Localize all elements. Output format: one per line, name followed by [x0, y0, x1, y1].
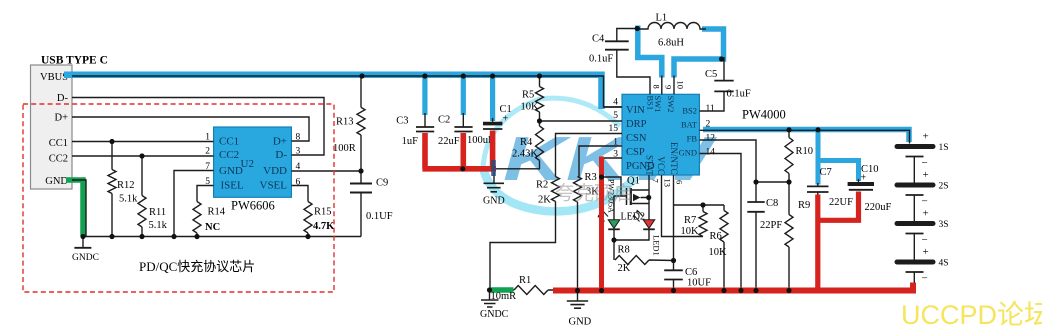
svg-text:R15: R15	[314, 207, 332, 218]
wire C3 stub blue	[422, 72, 427, 115]
wire FB divider node	[756, 181, 789, 183]
svg-text:C7: C7	[820, 167, 832, 178]
ground GNDC (bottom, at shunt)	[489, 292, 491, 300]
svg-text:+: +	[923, 208, 929, 220]
svg-text:UCCPD论坛: UCCPD论坛	[901, 300, 1042, 330]
wire FB net	[699, 140, 756, 291]
svg-text:SW2: SW2	[666, 96, 676, 113]
resistor R12	[108, 142, 116, 237]
svg-text:2.43K: 2.43K	[512, 149, 538, 160]
transistor Q1 PW2305A	[602, 176, 650, 220]
svg-text:9: 9	[664, 85, 674, 89]
svg-text:+: +	[861, 173, 867, 184]
svg-text:100R: 100R	[333, 143, 356, 154]
svg-text:+: +	[923, 169, 929, 181]
capacitor C5	[699, 57, 724, 111]
ground rail of PD/QC block	[83, 236, 361, 238]
svg-text:0.1UF: 0.1UF	[366, 211, 393, 222]
inductor L1	[637, 23, 706, 29]
shunt 10mR green bar	[490, 287, 514, 293]
wire CSN net	[556, 134, 623, 177]
wire AGND node under caps	[496, 168, 540, 170]
svg-text:−: −	[922, 196, 928, 208]
svg-text:2S: 2S	[939, 182, 949, 192]
wire BAT blue	[703, 130, 909, 143]
resistor R3	[574, 177, 582, 203]
svg-text:C2: C2	[438, 115, 450, 126]
svg-text:R9: R9	[798, 200, 810, 211]
svg-text:R7: R7	[684, 215, 696, 226]
svg-text:D+: D+	[54, 113, 68, 124]
capacitor C3	[424, 113, 426, 127]
svg-text:VIN: VIN	[626, 105, 645, 116]
svg-text:10K: 10K	[521, 102, 540, 113]
wire C7/C10 to rail red marker	[818, 192, 859, 291]
svg-text:R10: R10	[796, 146, 814, 157]
wire SW2/L1 blue	[674, 29, 724, 78]
svg-text:C4: C4	[592, 34, 605, 45]
wire C7 blue	[816, 130, 821, 185]
svg-text:13: 13	[663, 179, 673, 188]
svg-text:1S: 1S	[939, 143, 949, 153]
wire PGND stub	[604, 157, 622, 159]
svg-text:CC2: CC2	[49, 154, 68, 165]
svg-text:0.1uF: 0.1uF	[727, 89, 751, 100]
capacitor C1 (electrolytic)	[492, 118, 494, 122]
resistor R10	[785, 129, 793, 183]
svg-text:NC: NC	[205, 222, 220, 233]
svg-text:3S: 3S	[939, 220, 949, 230]
marker overlap blob	[491, 160, 496, 176]
wire C2 stub blue	[461, 72, 466, 115]
capacitor C4	[617, 29, 650, 95]
wire CC1 net	[72, 141, 214, 143]
resistor R7	[699, 205, 707, 237]
svg-text:C9: C9	[376, 178, 388, 189]
resistor R6	[720, 205, 728, 291]
svg-text:U2: U2	[241, 158, 254, 170]
capacitor C8	[747, 202, 764, 212]
svg-text:4.7K: 4.7K	[313, 221, 335, 232]
wire R2 to shunt	[490, 202, 556, 291]
svg-text:LED1: LED1	[652, 235, 662, 256]
svg-text:L1: L1	[656, 13, 668, 24]
svg-text:11: 11	[706, 104, 715, 114]
svg-text:2: 2	[205, 147, 210, 157]
svg-text:CC1: CC1	[219, 136, 239, 148]
LED LED1 (red)	[633, 210, 662, 256]
svg-text:R4: R4	[520, 137, 533, 148]
wire U1 GND pin to rail	[699, 154, 741, 291]
capacitor C7	[817, 183, 819, 195]
svg-text:R3: R3	[585, 172, 597, 183]
svg-text:R11: R11	[149, 207, 166, 218]
svg-text:22UF: 22UF	[829, 197, 853, 208]
wire USB GND green	[66, 180, 83, 236]
wire C1 stub blue	[490, 72, 495, 121]
svg-text:0.1uF: 0.1uF	[589, 54, 613, 65]
capacitor C2	[462, 113, 464, 127]
wire U2 GND pin to rail	[174, 171, 214, 237]
wire CC2 net	[72, 155, 214, 157]
svg-text:D+: D+	[273, 136, 287, 148]
svg-text:R6: R6	[710, 231, 722, 242]
svg-text:−: −	[922, 157, 928, 169]
junction dots	[359, 73, 364, 78]
svg-text:BAT: BAT	[681, 120, 698, 130]
svg-text:2K: 2K	[618, 263, 631, 274]
svg-text:−: −	[922, 273, 928, 285]
LED LED2 (green)	[598, 210, 645, 230]
wire VSEL to R15	[291, 186, 308, 202]
svg-text:D-: D-	[275, 149, 287, 161]
svg-text:−: −	[922, 234, 928, 246]
PD/QC dashed enclosure	[23, 104, 334, 292]
wire VCC to R7	[662, 175, 704, 237]
svg-text:PW4000: PW4000	[742, 108, 786, 122]
svg-text:GND: GND	[45, 176, 68, 187]
resistor R15	[304, 202, 312, 237]
svg-text:CSP: CSP	[626, 147, 645, 158]
wire DRP net	[540, 120, 623, 122]
resistor R11	[138, 156, 146, 237]
svg-text:5.1k: 5.1k	[149, 220, 168, 231]
svg-text:PD/QC快充协议芯片: PD/QC快充协议芯片	[139, 259, 255, 274]
ground GND (under C1)	[493, 172, 495, 183]
ground GNDC (left)	[82, 237, 84, 247]
svg-text:GND: GND	[569, 317, 592, 328]
resistor R2	[552, 177, 560, 202]
wire C3/C2/C1 to AGND red marker	[422, 131, 496, 169]
svg-text:FB: FB	[687, 134, 698, 144]
svg-text:GND: GND	[219, 165, 243, 177]
capacitor C6	[664, 270, 683, 279]
svg-text:PW6606: PW6606	[231, 199, 275, 213]
resistor R14	[193, 202, 201, 237]
wire VBUS	[72, 76, 622, 107]
wire C10 blue	[816, 161, 859, 182]
svg-text:+: +	[923, 131, 929, 143]
wire ISEL to R14	[197, 186, 214, 202]
svg-text:D-: D-	[57, 93, 69, 104]
wire CSP net	[579, 146, 622, 177]
svg-text:EN/NTC: EN/NTC	[669, 142, 679, 175]
USB Type C connector J1	[31, 55, 108, 190]
svg-text:C8: C8	[766, 198, 778, 209]
svg-text:6: 6	[675, 180, 685, 184]
svg-text:22uF: 22uF	[438, 136, 460, 147]
svg-text:VSEL: VSEL	[260, 180, 288, 192]
svg-text:CSN: CSN	[626, 133, 647, 144]
wire SW1 blue	[638, 26, 662, 78]
svg-text:VDD: VDD	[263, 165, 287, 177]
svg-text:R8: R8	[618, 245, 630, 256]
svg-text:7: 7	[651, 179, 661, 183]
svg-text:VCC: VCC	[656, 157, 666, 176]
wire VIN stub	[604, 106, 622, 108]
IC U1 PW4000	[609, 81, 786, 188]
svg-text:USB TYPE C: USB TYPE C	[41, 55, 108, 67]
wire STAT to LEDs	[648, 175, 650, 220]
wire D+ net	[72, 117, 309, 141]
ground GND (power, bottom)	[577, 292, 579, 301]
wire VDD net	[291, 170, 361, 172]
wire PGND red marker	[599, 157, 604, 291]
svg-text:SW1: SW1	[653, 96, 663, 113]
svg-text:C3: C3	[396, 116, 408, 127]
svg-text:R14: R14	[208, 207, 226, 218]
svg-text:8: 8	[652, 85, 662, 89]
svg-text:10UF: 10UF	[687, 278, 711, 289]
wire D- net	[72, 98, 324, 156]
resistor R13	[357, 76, 365, 171]
wire BAT net	[699, 130, 909, 143]
svg-text:5: 5	[613, 111, 618, 121]
resistor R8	[615, 256, 674, 265]
svg-text:22PF: 22PF	[760, 220, 782, 231]
svg-text:15: 15	[609, 124, 619, 134]
wire EN/NTC net	[673, 175, 675, 291]
svg-text:10K: 10K	[681, 226, 700, 237]
svg-text:C6: C6	[685, 267, 697, 278]
svg-text:VBUS: VBUS	[40, 72, 68, 83]
resistor R5	[536, 76, 544, 121]
svg-text:1uF: 1uF	[402, 136, 419, 147]
capacitor C9	[360, 171, 362, 237]
wire R3 to power GND	[577, 202, 579, 291]
resistor R4	[536, 121, 544, 169]
svg-text:12: 12	[706, 134, 716, 144]
power ground rail red marker	[553, 283, 913, 291]
svg-text:GND: GND	[483, 196, 505, 207]
svg-text:2K: 2K	[538, 195, 551, 206]
svg-text:CC2: CC2	[219, 149, 239, 161]
svg-text:R1: R1	[519, 275, 531, 286]
svg-text:GND: GND	[679, 148, 697, 158]
svg-text:BS2: BS2	[682, 106, 697, 116]
wire SW2 under	[673, 76, 675, 95]
svg-text:R5: R5	[522, 90, 534, 101]
svg-text:10K: 10K	[709, 247, 728, 258]
wire LED cathodes	[614, 229, 649, 260]
svg-text:GNDC: GNDC	[72, 253, 99, 263]
wire USB GND to GNDC	[72, 180, 86, 237]
wire SW1 under	[661, 76, 663, 95]
svg-text:10: 10	[676, 81, 686, 90]
svg-text:5.1k: 5.1k	[119, 194, 138, 205]
svg-text:DRP: DRP	[626, 119, 647, 130]
svg-text:+: +	[923, 246, 929, 258]
svg-text:GNDC: GNDC	[480, 309, 509, 320]
svg-text:6.8uH: 6.8uH	[658, 38, 684, 49]
shunt wire and resistor R1	[489, 289, 515, 291]
IC U2 PW6606	[205, 127, 300, 213]
resistor R9	[785, 182, 793, 291]
watermark swoosh	[483, 98, 620, 168]
svg-text:R2: R2	[536, 180, 548, 191]
capacitor C10 (electrolytic)	[858, 179, 860, 182]
wire VBUS blue marker	[64, 75, 602, 109]
svg-text:4: 4	[613, 98, 618, 108]
svg-text:R13: R13	[336, 117, 354, 128]
svg-text:CC1: CC1	[49, 138, 68, 149]
svg-text:220uF: 220uF	[865, 202, 892, 213]
svg-text:4S: 4S	[939, 259, 949, 269]
svg-text:+: +	[503, 114, 509, 125]
svg-text:ISEL: ISEL	[221, 180, 245, 192]
svg-text:C5: C5	[705, 69, 717, 80]
svg-text:夸克硕启: 夸克硕启	[555, 183, 633, 205]
wire EN branch to R6	[674, 204, 725, 206]
svg-text:14: 14	[706, 148, 716, 158]
svg-text:STAT: STAT	[645, 155, 655, 176]
svg-text:R12: R12	[117, 180, 135, 191]
battery stack 1S-4S	[897, 131, 949, 288]
